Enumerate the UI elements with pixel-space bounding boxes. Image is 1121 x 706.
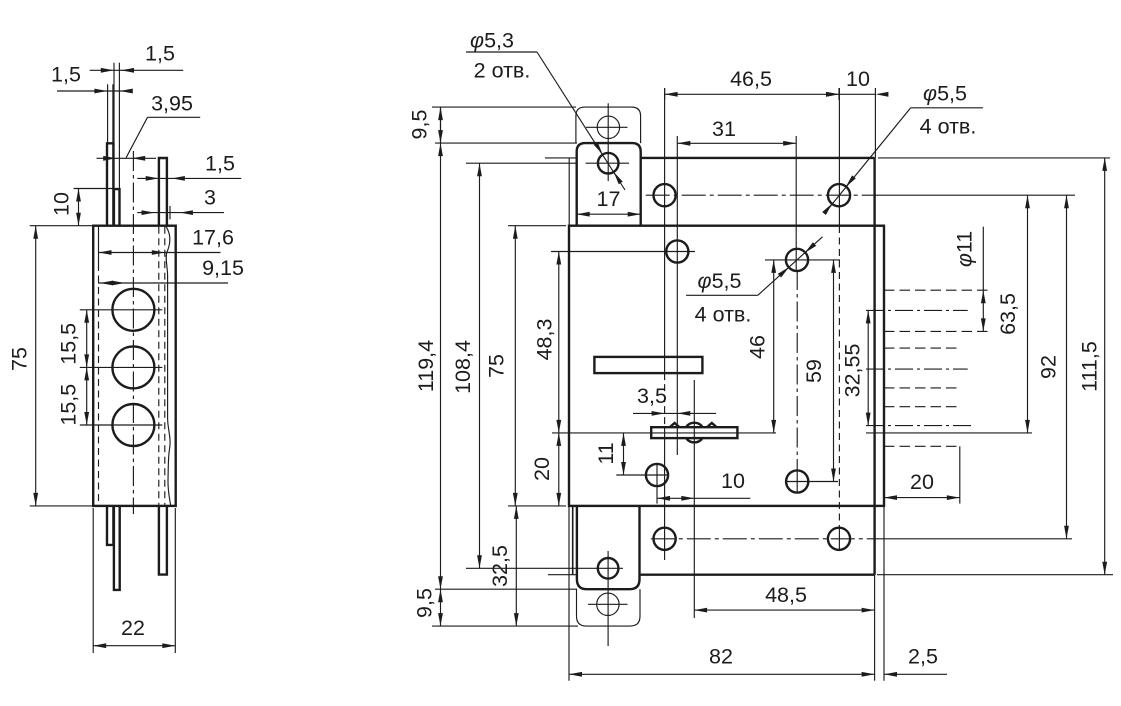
top phantom screw circle <box>597 116 619 138</box>
dimension 10 ext <box>74 188 114 190</box>
dimension 10 <box>78 189 80 226</box>
left view: deadbolt sleeve (thick) <box>114 189 120 226</box>
dimension 15,5 lower <box>86 367 88 425</box>
left view: hole 1 centre line <box>80 309 163 311</box>
dimension 20 left <box>558 433 560 506</box>
cam bump left <box>670 423 680 427</box>
svg-text:75: 75 <box>484 354 508 378</box>
svg-text:9,5: 9,5 <box>408 110 432 140</box>
top tabs centre line <box>607 103 609 181</box>
svg-text:59: 59 <box>802 359 826 383</box>
ext line row3-left hole <box>656 465 658 504</box>
row2-right to row3-right centre line <box>796 270 798 471</box>
dimension 9,5 top ext <box>432 106 576 108</box>
faceplate hole 4 <box>828 528 850 550</box>
svg-text:3,5: 3,5 <box>637 384 667 408</box>
svg-text:20: 20 <box>910 470 934 494</box>
svg-text:15,5: 15,5 <box>57 323 81 365</box>
ext line right of body <box>883 506 885 681</box>
dimension phi11 <box>982 227 984 332</box>
dimension 17,6 <box>99 252 221 254</box>
left view: hole 3 centre line <box>80 424 163 426</box>
svg-text:10: 10 <box>50 192 74 216</box>
left view: hidden faceplate edge (dashed) <box>164 227 166 505</box>
dimension 75 ext top <box>30 225 92 227</box>
dimension 32,5 <box>515 506 517 626</box>
dimension 32,55 <box>867 310 869 425</box>
cam bar <box>651 427 737 438</box>
dimension 119,4 <box>440 107 442 626</box>
bolt 2 hidden lines <box>884 347 960 349</box>
svg-text:2 отв.: 2 отв. <box>474 59 531 83</box>
left view: bottom bar C <box>159 506 167 575</box>
left view: centre line <box>132 151 134 514</box>
svg-text:1,5: 1,5 <box>205 152 235 176</box>
dimension 3,5 <box>633 412 716 414</box>
faceplate holes centre line (top) <box>646 194 878 196</box>
left view: hidden bolt edge (dashed) <box>158 227 160 505</box>
dimension 2,5 <box>884 673 947 675</box>
svg-text:φ5,3: φ5,3 <box>470 29 514 53</box>
dimension 63,5 <box>1027 195 1029 433</box>
svg-text:111,5: 111,5 <box>1078 341 1102 392</box>
left view: hole 3 <box>112 404 154 446</box>
dimension 1,5 (right bolt) <box>137 177 241 179</box>
faceplate hole 1 <box>654 184 676 206</box>
left view: latch bolt (thick) <box>107 143 113 225</box>
dimension 20 right <box>884 497 960 499</box>
top tab hole <box>598 153 619 174</box>
leader phi5,3 <box>537 52 625 190</box>
left view: bottom bar A <box>107 506 113 545</box>
left view: wavy break line <box>166 226 171 505</box>
svg-text:4 отв.: 4 отв. <box>920 115 977 139</box>
left view: hole 2 centre line <box>80 366 163 368</box>
bottom phantom screw cross <box>588 603 628 605</box>
bottom tabs centre line <box>607 551 609 646</box>
dimension 59 <box>833 260 835 482</box>
cam bump right <box>707 423 717 427</box>
svg-text:46: 46 <box>746 335 770 359</box>
row2-right hole centre line <box>765 259 840 261</box>
dimension 9,5 bottom <box>438 589 443 602</box>
svg-text:17: 17 <box>597 187 621 211</box>
body hole row2 left <box>666 240 688 262</box>
dimension 10 bottom <box>657 497 750 499</box>
bottom tab <box>577 506 640 589</box>
svg-text:10: 10 <box>846 67 870 91</box>
svg-text:82: 82 <box>709 645 733 669</box>
bolt 1 hidden lines <box>884 289 993 291</box>
ext line row2-right hole <box>795 136 797 270</box>
ext line through hole1 <box>664 88 666 373</box>
dimension 31 <box>677 142 796 144</box>
body outline <box>569 226 884 506</box>
faceplate top edge left stub <box>545 157 577 159</box>
faceplate left edge (top strip) <box>568 158 570 226</box>
bottom phantom plate <box>577 589 641 626</box>
cam centre line <box>552 432 776 434</box>
top tab <box>577 143 641 226</box>
left view: deadbolt rod thin lines <box>113 63 115 189</box>
ext line through row2-left hole <box>676 136 678 455</box>
faceplate top edge <box>641 157 875 159</box>
leader phi5,5 mid <box>758 237 823 295</box>
svg-text:2,5: 2,5 <box>908 645 938 669</box>
svg-text:48,3: 48,3 <box>533 319 557 361</box>
dimension 108,4 ext <box>466 162 577 164</box>
ext line for 20 right <box>959 446 961 503</box>
left view: inner wall line <box>98 226 100 264</box>
dimension 46,5/10 ext <box>664 88 666 100</box>
svg-text:17,6: 17,6 <box>192 226 234 250</box>
ext line faceplate right bottom <box>874 575 876 681</box>
faceplate hole 3 <box>654 528 676 550</box>
svg-text:3: 3 <box>204 186 216 210</box>
dimension 46 <box>773 260 775 433</box>
bottom strip left edge <box>572 506 574 575</box>
dimension 22 ext <box>92 508 94 653</box>
svg-text:92: 92 <box>1037 355 1061 379</box>
ext line body left bottom <box>568 506 570 681</box>
dimension 9,15 <box>98 282 228 284</box>
faceplate bottom edge left stub <box>548 574 577 576</box>
svg-text:75: 75 <box>8 347 32 371</box>
bottom tab hole <box>598 558 619 579</box>
dimension 48,5 <box>694 609 875 611</box>
label 3,95 leader <box>148 116 201 118</box>
cam hub bottom arc <box>686 438 702 442</box>
svg-text:11: 11 <box>594 442 618 464</box>
left view: hole 1 <box>112 289 154 331</box>
dimension 111,5 <box>1104 158 1106 575</box>
svg-text:φ11: φ11 <box>953 231 977 267</box>
dimension 9,5 top <box>440 107 442 143</box>
dimension 22 <box>93 645 175 647</box>
left view: right bolt (thick) <box>159 158 167 226</box>
svg-text:10: 10 <box>721 469 745 493</box>
dimension 3 (faceplate) <box>137 212 224 214</box>
dimension 9,5 bottom ext <box>435 588 577 590</box>
svg-text:φ5,5: φ5,5 <box>923 82 967 106</box>
left view: bottom bar B <box>114 506 120 590</box>
cam vertical line <box>693 380 695 618</box>
svg-text:22: 22 <box>121 616 145 640</box>
dimension 75 ext bottom <box>30 505 92 507</box>
body hole row2 right <box>786 249 808 271</box>
left view: hole 2 <box>112 346 154 388</box>
svg-text:3,95: 3,95 <box>151 92 193 116</box>
bottom phantom screw circle <box>597 593 619 615</box>
dimension 1,5 (deadbolt rod) <box>90 69 184 71</box>
body hole row3 right <box>786 470 808 492</box>
dimension 11 <box>623 433 625 475</box>
body hole row3 left <box>646 464 668 486</box>
svg-text:108,4: 108,4 <box>451 340 475 394</box>
keyhole slot <box>594 357 702 373</box>
dimension 15,5 upper <box>86 310 88 368</box>
svg-text:46,5: 46,5 <box>730 67 772 91</box>
bolt 3 hidden lines <box>884 406 960 408</box>
left view: latch rod thin lines <box>107 84 109 143</box>
svg-text:119,4: 119,4 <box>414 340 438 392</box>
svg-text:9,5: 9,5 <box>413 588 437 618</box>
row3-left hole centre line <box>616 474 668 476</box>
svg-text:9,15: 9,15 <box>202 256 244 280</box>
dimension 75 ext <box>508 225 566 227</box>
leader phi5,5 top <box>826 108 910 212</box>
dimension 108,4 <box>479 163 481 568</box>
cam hub top arc <box>686 423 703 428</box>
svg-text:1,5: 1,5 <box>145 42 175 66</box>
dimension 111,5 ext <box>878 157 1110 159</box>
svg-text:1,5: 1,5 <box>51 63 81 87</box>
faceplate bottom edge <box>640 574 875 576</box>
row2-left hole centre line <box>551 251 695 253</box>
svg-text:32,5: 32,5 <box>488 545 512 587</box>
faceplate holes centre line (bottom) <box>651 538 880 540</box>
dimension 10 top <box>826 92 839 97</box>
svg-text:48,5: 48,5 <box>765 583 807 607</box>
dimension 48,3 <box>558 252 560 433</box>
svg-text:31: 31 <box>712 117 736 141</box>
left view: lock body (side) <box>93 226 176 506</box>
svg-text:4 отв.: 4 отв. <box>695 303 752 327</box>
dimension 75 (left view) <box>35 226 37 506</box>
faceplate right edge <box>873 158 875 575</box>
dimension 46,5 <box>665 93 876 95</box>
top phantom screw cross <box>586 126 628 128</box>
faceplate hole 2 <box>828 184 850 206</box>
dimension 17 <box>577 213 641 215</box>
svg-text:φ5,5: φ5,5 <box>698 269 742 293</box>
hidden line from hole2 <box>838 88 840 226</box>
row3-right hole centre line <box>786 481 838 483</box>
dimension 82 <box>569 673 875 675</box>
dimension 1,5 (latch rod) <box>57 90 127 92</box>
svg-text:63,5: 63,5 <box>996 293 1020 335</box>
svg-text:32,55: 32,55 <box>840 344 864 398</box>
svg-text:15,5: 15,5 <box>57 384 81 426</box>
svg-text:20: 20 <box>530 457 554 481</box>
top phantom plate <box>576 107 641 143</box>
dimension 92 <box>1066 195 1068 539</box>
dimension 3,95 row <box>97 157 157 159</box>
dimension 75 (right view) <box>514 226 516 506</box>
